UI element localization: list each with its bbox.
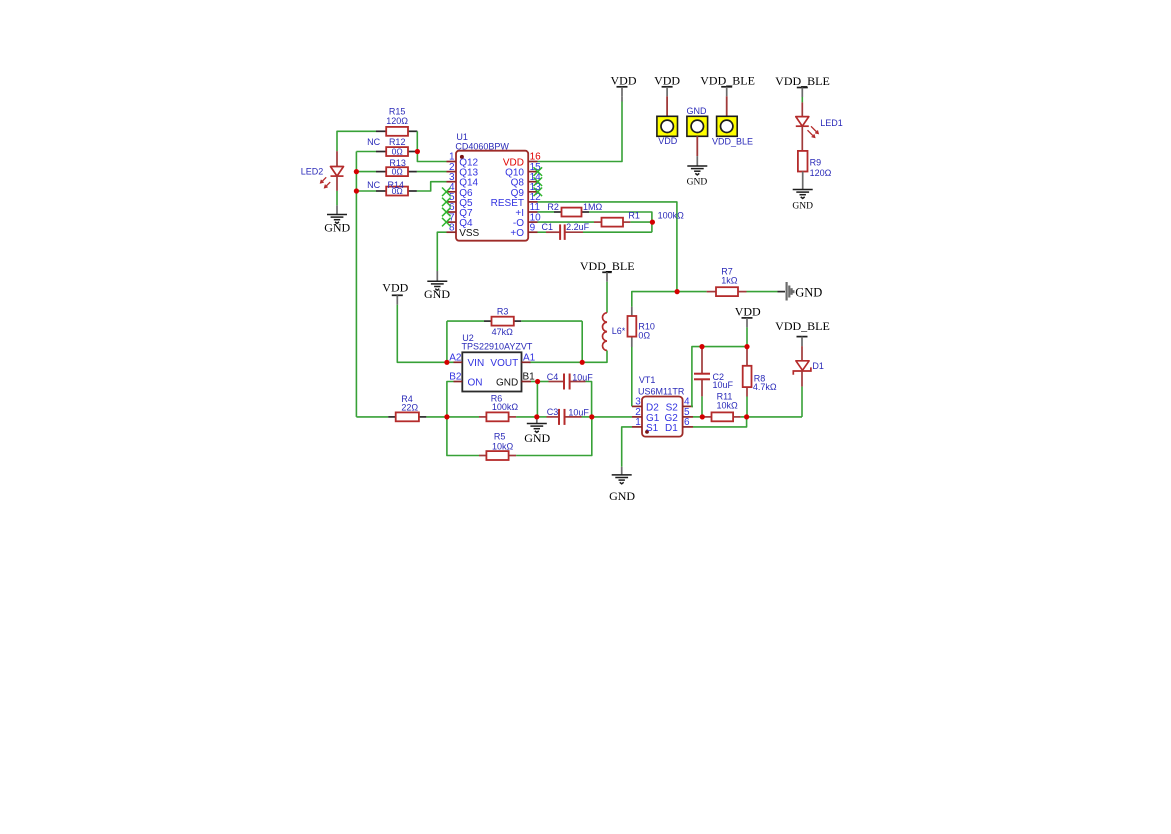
pad VDD_BLE xyxy=(717,96,738,136)
svg-text:8: 8 xyxy=(449,222,455,233)
wire xyxy=(356,190,376,192)
capacitor C1 xyxy=(546,224,583,240)
U1 pin 7 Q4 xyxy=(447,212,473,229)
svg-text:VDD: VDD xyxy=(735,304,761,318)
junction node VIN xyxy=(444,360,449,365)
capacitor C3 xyxy=(547,409,582,425)
resistor R14 xyxy=(376,186,417,196)
U2 pin A2 VIN xyxy=(449,353,484,370)
junction node left R14 xyxy=(354,188,359,193)
svg-text:4.7kΩ: 4.7kΩ xyxy=(753,382,777,392)
power flag VDD (pad VDD) xyxy=(662,87,673,97)
wire xyxy=(606,282,608,313)
ground xyxy=(687,156,707,175)
wire xyxy=(801,97,803,102)
svg-text:10kΩ: 10kΩ xyxy=(716,400,738,410)
resistor R3 xyxy=(484,317,521,326)
wire xyxy=(581,321,583,362)
U1 pin 5 Q5 xyxy=(447,192,473,209)
net flag GND xyxy=(778,282,794,301)
wire xyxy=(446,321,448,362)
wire xyxy=(397,305,453,363)
svg-text:GND: GND xyxy=(496,377,518,388)
wire xyxy=(746,397,748,417)
svg-text:C1: C1 xyxy=(542,222,554,232)
svg-text:TPS22910AYZVT: TPS22910AYZVT xyxy=(462,342,533,352)
junction node G2 xyxy=(700,414,705,419)
junction node B1 xyxy=(535,379,540,384)
svg-text:1: 1 xyxy=(635,417,641,428)
resistor R4 xyxy=(388,412,426,421)
svg-text:100kΩ: 100kΩ xyxy=(658,210,685,220)
svg-text:A2: A2 xyxy=(449,353,462,364)
VT1 pin 1 S1 xyxy=(632,417,659,434)
svg-text:1MΩ: 1MΩ xyxy=(583,202,603,212)
power flag VDD (U2) xyxy=(392,295,403,305)
svg-text:S1: S1 xyxy=(646,423,659,434)
wire xyxy=(355,152,357,417)
svg-text:0Ω: 0Ω xyxy=(392,167,403,177)
svg-text:GND: GND xyxy=(687,178,708,188)
wire xyxy=(516,417,592,456)
resistor R9 xyxy=(798,151,808,172)
svg-text:GND: GND xyxy=(792,202,813,212)
U1 pin 2 Q13 xyxy=(447,162,479,179)
wire xyxy=(692,347,747,407)
svg-text:VDD: VDD xyxy=(654,73,680,87)
diode D1 xyxy=(793,346,811,387)
svg-text:R1: R1 xyxy=(628,210,640,220)
svg-text:10uF: 10uF xyxy=(568,408,589,418)
wire xyxy=(589,212,652,232)
capacitor C4 xyxy=(549,374,586,390)
U1 pin 8 VSS xyxy=(447,222,480,239)
resistor R13 xyxy=(376,167,417,177)
svg-text:R3: R3 xyxy=(497,306,509,316)
inductor L6 xyxy=(602,313,607,351)
wire xyxy=(447,417,479,456)
svg-text:A1: A1 xyxy=(523,353,536,364)
svg-text:D2: D2 xyxy=(646,402,659,413)
U1 pin 4 Q6 xyxy=(447,182,473,199)
wire xyxy=(631,347,633,406)
ground xyxy=(793,172,813,199)
wire xyxy=(356,171,376,173)
svg-text:+O: +O xyxy=(510,228,524,239)
svg-text:CD4060BPW: CD4060BPW xyxy=(455,141,509,151)
pad GND xyxy=(687,116,708,156)
svg-text:GND: GND xyxy=(795,285,822,299)
svg-text:S2: S2 xyxy=(666,402,679,413)
U1 pin 9 +O xyxy=(510,222,537,239)
U2 pin B2 ON xyxy=(449,372,482,389)
svg-text:GND: GND xyxy=(524,431,550,445)
svg-text:R12: R12 xyxy=(389,137,406,147)
wire xyxy=(538,202,677,292)
no-connect marks U1 pins 4-7 xyxy=(442,188,451,227)
svg-text:VDD_BLE: VDD_BLE xyxy=(700,73,755,87)
svg-text:GND: GND xyxy=(324,221,350,235)
svg-text:R13: R13 xyxy=(389,158,406,168)
U1 pin 11 +I xyxy=(515,202,540,219)
svg-text:VSS: VSS xyxy=(459,228,479,239)
svg-text:47kΩ: 47kΩ xyxy=(492,327,514,337)
resistor R6 xyxy=(479,412,516,421)
svg-text:VDD: VDD xyxy=(382,280,408,294)
wire xyxy=(538,221,595,223)
ground xyxy=(427,271,447,290)
junction node RESET xyxy=(675,289,680,294)
wire xyxy=(701,396,703,417)
power flag VDD_BLE (pad) xyxy=(721,87,732,97)
svg-text:0Ω: 0Ω xyxy=(638,331,650,341)
wire xyxy=(416,131,418,151)
wire xyxy=(356,416,388,418)
transistor VT1 US6M11TR xyxy=(642,397,683,437)
wire xyxy=(592,416,632,418)
svg-text:100kΩ: 100kΩ xyxy=(492,402,519,412)
LED D2 (LED2) xyxy=(321,151,344,191)
wire xyxy=(632,292,707,307)
wire xyxy=(516,416,537,418)
resistor R8 xyxy=(743,347,752,397)
pad VDD xyxy=(657,96,678,136)
svg-text:22Ω: 22Ω xyxy=(401,403,418,413)
wire xyxy=(630,221,652,223)
U1 pin 15 Q10 xyxy=(505,162,541,179)
U1 pin 3 Q14 xyxy=(447,172,479,189)
ground xyxy=(527,417,547,433)
svg-text:VT1: VT1 xyxy=(639,375,656,385)
junction xyxy=(744,414,749,419)
wire xyxy=(531,381,538,383)
power flag VDD_BLE (L6) xyxy=(602,272,612,282)
VT1 pin 3 D2 xyxy=(632,397,659,414)
svg-text:GND: GND xyxy=(424,287,450,301)
svg-text:VDD: VDD xyxy=(611,73,637,87)
svg-text:ON: ON xyxy=(468,377,483,388)
VT1 pin 5 G2 xyxy=(664,407,693,424)
power flag VDD (C2/R8) xyxy=(742,318,753,328)
svg-text:R5: R5 xyxy=(494,432,506,442)
wire xyxy=(417,182,447,191)
svg-text:1kΩ: 1kΩ xyxy=(721,275,738,285)
svg-text:NC: NC xyxy=(367,137,380,147)
svg-text:VDD_BLE: VDD_BLE xyxy=(775,319,830,333)
svg-text:C3: C3 xyxy=(547,407,559,417)
wire xyxy=(586,382,592,417)
resistor R12 xyxy=(376,147,417,157)
wire xyxy=(336,191,338,205)
svg-text:VDD_BLE: VDD_BLE xyxy=(580,259,635,273)
label R15 120ohm xyxy=(386,107,408,126)
resistor R5 xyxy=(479,451,516,460)
resistor R7 xyxy=(707,287,747,296)
wire xyxy=(447,382,454,417)
svg-text:R14: R14 xyxy=(388,180,405,190)
svg-text:R9: R9 xyxy=(810,158,822,168)
wire xyxy=(622,427,632,467)
capacitor C2 xyxy=(694,347,710,397)
wire xyxy=(746,327,748,346)
wire xyxy=(447,416,479,418)
wire xyxy=(801,387,803,417)
U1 pin 10 -O xyxy=(513,212,541,229)
junction xyxy=(589,414,594,419)
svg-text:D1: D1 xyxy=(665,423,678,434)
wire xyxy=(537,416,547,418)
junction xyxy=(444,414,449,419)
resistor R10 xyxy=(628,307,637,347)
wire xyxy=(437,232,446,271)
U1 pin 12 RESET xyxy=(491,192,542,209)
svg-text:LED2: LED2 xyxy=(301,166,324,176)
svg-text:3: 3 xyxy=(635,397,641,408)
wire xyxy=(582,351,607,363)
svg-text:VDD_BLE: VDD_BLE xyxy=(712,137,753,147)
U2 pin A1 VOUT xyxy=(490,353,535,370)
wire xyxy=(538,102,623,162)
U2 pin B1 GND xyxy=(496,372,535,389)
svg-text:LED1: LED1 xyxy=(820,118,843,128)
svg-text:GND: GND xyxy=(609,489,635,503)
svg-text:10kΩ: 10kΩ xyxy=(492,442,514,452)
U1 pin 13 Q9 xyxy=(511,182,542,199)
svg-text:US6M11TR: US6M11TR xyxy=(638,386,685,396)
resistor R1 xyxy=(594,218,630,227)
wire xyxy=(337,131,376,151)
wire xyxy=(530,361,583,363)
svg-text:0Ω: 0Ω xyxy=(392,147,403,157)
wire xyxy=(747,416,802,418)
wire xyxy=(741,416,747,418)
VT1 pin 6 D1 xyxy=(665,417,693,434)
junction xyxy=(415,149,420,154)
U1 pin 16 VDD xyxy=(503,152,541,169)
wire xyxy=(582,416,592,418)
wire xyxy=(536,382,538,417)
junction node left R13 xyxy=(354,169,359,174)
svg-text:VIN: VIN xyxy=(468,358,485,369)
svg-text:VOUT: VOUT xyxy=(490,358,518,369)
LED D1 (LED1) xyxy=(796,102,818,150)
svg-text:120Ω: 120Ω xyxy=(386,116,408,126)
junction node C2 top xyxy=(699,344,704,349)
resistor R11 xyxy=(702,412,740,421)
wire xyxy=(538,381,549,383)
ground xyxy=(612,467,632,484)
ground xyxy=(327,205,347,223)
svg-text:L6*: L6* xyxy=(612,326,626,336)
resistor R2 xyxy=(554,208,589,217)
wire xyxy=(583,231,652,233)
wire xyxy=(538,211,555,213)
U1 pin 1 Q12 xyxy=(447,152,479,169)
power flag VDD_BLE (D1) xyxy=(797,337,808,347)
resistor R15 xyxy=(376,127,417,136)
junction node VOUT xyxy=(580,360,585,365)
wire xyxy=(538,231,547,233)
wire xyxy=(747,291,778,293)
U1 pin 14 Q8 xyxy=(511,172,542,189)
svg-text:C4: C4 xyxy=(547,372,559,382)
junction xyxy=(650,220,655,225)
wire xyxy=(693,416,702,418)
IC U1 CD4060BPW xyxy=(456,151,528,241)
IC U2 TPS22910AYZVT xyxy=(462,352,521,391)
wire xyxy=(447,320,484,322)
svg-text:D1: D1 xyxy=(812,361,824,371)
svg-text:GND: GND xyxy=(687,106,708,116)
power flag VDD xyxy=(617,87,628,102)
svg-text:NC: NC xyxy=(367,180,380,190)
svg-text:120Ω: 120Ω xyxy=(810,168,832,178)
wire xyxy=(426,416,447,418)
svg-text:6: 6 xyxy=(684,417,690,428)
no-connect marks U1 pins 15-13 xyxy=(534,167,543,196)
svg-text:9: 9 xyxy=(530,222,536,233)
wire xyxy=(521,320,582,322)
VT1 pin 2 G1 xyxy=(632,407,660,424)
wire xyxy=(356,151,376,153)
wire xyxy=(693,417,747,427)
wire xyxy=(417,171,447,173)
svg-text:10uF: 10uF xyxy=(713,380,734,390)
VT1 pin 4 S2 xyxy=(666,397,693,414)
junction node R8 top xyxy=(744,344,749,349)
svg-text:VDD_BLE: VDD_BLE xyxy=(775,74,830,88)
wire xyxy=(417,152,446,162)
svg-text:VDD: VDD xyxy=(658,136,678,146)
svg-text:2.2uF: 2.2uF xyxy=(566,222,590,232)
junction xyxy=(534,414,539,419)
U1 pin 6 Q7 xyxy=(447,202,473,219)
svg-text:4: 4 xyxy=(684,397,690,408)
svg-text:R2: R2 xyxy=(547,202,559,212)
power flag VDD_BLE (LED1) xyxy=(797,88,808,98)
